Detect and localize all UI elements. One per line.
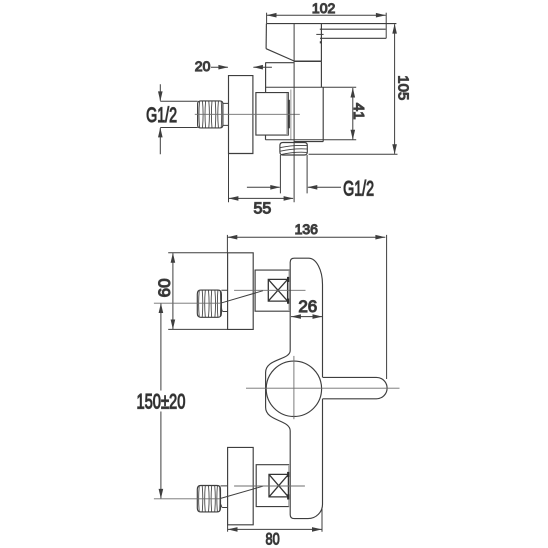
G1/2 right dimension arrows xyxy=(247,186,341,188)
wall plate (side view) xyxy=(229,76,253,154)
extension line 102 right / lever right end xyxy=(385,13,387,39)
dimension 80 arrowheads xyxy=(228,527,322,532)
handle vertical centerline xyxy=(293,356,295,419)
cartridge cap rectangle xyxy=(256,93,288,136)
svg-text:105: 105 xyxy=(395,75,412,100)
inlet collar xyxy=(223,103,228,125)
wall plate bottom (front view) xyxy=(228,447,254,524)
extension line 102 left xyxy=(266,13,268,24)
top leader line xyxy=(221,291,264,304)
main body left vertical / outlet centerline xyxy=(293,24,295,203)
extension line 55 left xyxy=(228,154,230,203)
outlet pipe walls xyxy=(280,155,307,193)
extension line 136 left xyxy=(226,235,228,253)
dimension 102 line xyxy=(267,14,386,16)
cap shading dark xyxy=(288,100,290,129)
bottom thread crest lines xyxy=(199,486,220,512)
lever pivot cross xyxy=(316,33,323,35)
svg-text:20: 20 xyxy=(195,58,211,74)
outlet thread crest lines xyxy=(280,145,307,154)
extension line 80 right xyxy=(321,508,323,532)
dimension 136 line xyxy=(227,236,385,238)
upper escutcheon section top xyxy=(265,62,294,64)
extension line 136 right xyxy=(386,235,388,379)
plate bottom edge extension (60 dim) xyxy=(168,328,227,330)
handle horizontal centerline xyxy=(246,387,400,389)
extension line 80 left xyxy=(227,525,229,532)
dimension 102 arrowheads xyxy=(267,13,386,18)
inlet centerline xyxy=(195,113,300,115)
body left edge xyxy=(265,24,267,49)
extension line 105 bottom xyxy=(309,153,398,155)
body/lever top surface line xyxy=(267,23,397,25)
cap shading gray xyxy=(286,93,288,135)
svg-text:G1/2: G1/2 xyxy=(146,103,177,126)
svg-text:26: 26 xyxy=(298,297,317,316)
bottom X-box corner ticks xyxy=(287,472,289,500)
dimension 26 line xyxy=(291,316,322,318)
dimension 105 line xyxy=(394,24,396,154)
top housing right shading xyxy=(288,270,290,311)
svg-text:136: 136 xyxy=(295,221,319,237)
top connector housing xyxy=(255,270,289,311)
dimension 41 arrowheads xyxy=(351,88,356,140)
top thread crest lines xyxy=(199,290,221,317)
svg-text:G1/2: G1/2 xyxy=(343,177,374,200)
outlet thread (side view) xyxy=(280,143,307,156)
housing left lower stub xyxy=(265,135,267,140)
cartridge housing top (with 41 extension) xyxy=(265,86,356,88)
dimension 41 line xyxy=(352,88,354,139)
svg-text:41: 41 xyxy=(350,103,367,120)
svg-text:80: 80 xyxy=(266,531,280,548)
lever neck edge xyxy=(320,24,322,62)
bottom leader line xyxy=(220,486,263,498)
bottom connector centerline xyxy=(154,498,221,500)
dimension 26 arrowheads xyxy=(291,314,322,319)
dimension 136 arrowheads xyxy=(227,235,385,240)
bottom inlet thread (front view) xyxy=(197,486,220,512)
dimension 150±20 lower line xyxy=(160,412,162,499)
handle lever (front view) xyxy=(323,377,388,398)
body ledge under lever xyxy=(294,60,322,62)
G1/2 left dimension extension lines xyxy=(160,101,197,127)
dimension 60 line xyxy=(172,253,174,329)
svg-text:150±20: 150±20 xyxy=(136,390,185,413)
body sloped top xyxy=(266,49,294,61)
bottom connector housing xyxy=(256,465,288,507)
svg-text:102: 102 xyxy=(312,0,336,16)
top connector centerline xyxy=(154,302,222,304)
cap shading light right xyxy=(290,90,292,140)
main column body outline xyxy=(266,258,323,518)
inlet thread crest lines xyxy=(199,101,222,128)
top X-box corner ticks xyxy=(287,277,289,304)
cartridge housing bottom (with 41 extension) xyxy=(266,139,357,141)
bottom X-box centerline xyxy=(234,485,305,487)
dimension 150±20 upper line xyxy=(160,304,162,391)
dimension 60 arrowheads xyxy=(171,253,176,330)
main body right edge lower xyxy=(322,87,324,141)
dimension 80 line xyxy=(228,528,322,530)
top X-box xyxy=(268,279,287,301)
bottom X-box xyxy=(269,474,288,497)
upper escutcheon section left edge xyxy=(265,63,267,93)
wall plate top (front view) xyxy=(228,253,254,330)
svg-text:55: 55 xyxy=(254,201,272,218)
main body bottom xyxy=(294,141,323,143)
lever bar xyxy=(320,29,386,38)
dimension 20 left arrow xyxy=(211,66,228,68)
dimension 150±20 arrowheads xyxy=(159,303,164,499)
lever pivot dot xyxy=(320,41,322,43)
plate top edge extension (60 dim) xyxy=(168,252,227,254)
dimension 55 arrowheads xyxy=(229,196,294,201)
dimension 105 arrowheads xyxy=(392,24,397,155)
dimension 20 right arrow xyxy=(253,66,272,68)
main body right edge upper xyxy=(320,61,322,87)
G1/2 left dimension arrows xyxy=(159,84,161,154)
bottom collar xyxy=(221,486,228,508)
inlet thread (side view) xyxy=(198,101,223,128)
handle knob circle xyxy=(266,361,321,416)
svg-text:60: 60 xyxy=(155,278,174,297)
dimension 55 line xyxy=(229,197,293,199)
top X-box centerline xyxy=(234,289,305,291)
bottom housing right shading xyxy=(288,465,290,506)
top collar xyxy=(221,290,227,311)
top inlet thread (front view) xyxy=(197,290,221,317)
